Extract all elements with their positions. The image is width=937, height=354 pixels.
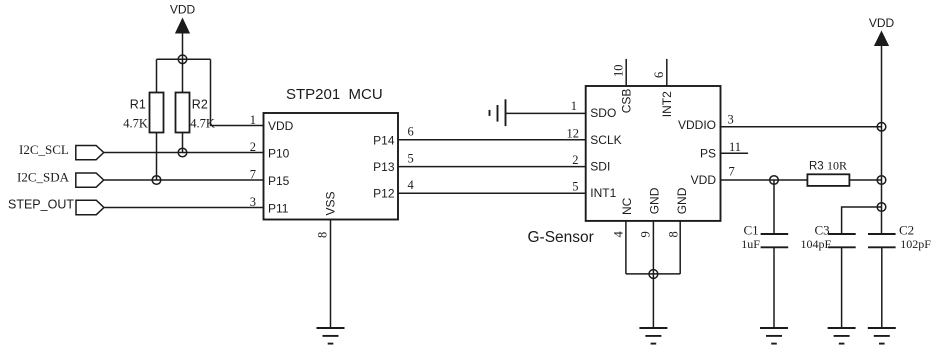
svg-text:8: 8	[316, 232, 330, 238]
svg-text:P14: P14	[373, 134, 395, 148]
svg-text:R3: R3	[809, 161, 824, 173]
wire R1 top lead	[156, 59, 158, 92]
MCU U1 STP201	[264, 86, 399, 220]
wire pin6 stub (INT2)	[666, 59, 668, 86]
wire pin10 stub (CSB)	[625, 59, 627, 86]
svg-text:NC: NC	[620, 197, 634, 215]
junction R2 / SCL	[178, 148, 187, 157]
wire pin4 down	[625, 221, 627, 274]
svg-text:9: 9	[638, 231, 652, 237]
wire C3 bottom lead	[841, 247, 843, 327]
svg-text:VDDIO: VDDIO	[678, 118, 716, 132]
svg-text:GND: GND	[648, 187, 662, 214]
svg-text:SDO: SDO	[590, 106, 616, 120]
svg-text:5: 5	[408, 151, 414, 165]
wire VDD to pin1	[211, 59, 264, 125]
wire gnd join	[626, 273, 680, 275]
svg-text:6: 6	[652, 72, 666, 78]
svg-text:1: 1	[571, 99, 577, 113]
svg-text:1: 1	[250, 113, 256, 127]
svg-text:I2C_SCL: I2C_SCL	[19, 142, 69, 157]
svg-text:VSS: VSS	[324, 191, 338, 215]
svg-text:INT1: INT1	[590, 186, 616, 200]
svg-text:102pF: 102pF	[900, 237, 931, 251]
wire top bus	[157, 58, 211, 60]
svg-text:P11: P11	[268, 202, 289, 216]
resistor R1	[123, 93, 163, 133]
svg-text:10: 10	[612, 65, 626, 78]
svg-text:7: 7	[729, 164, 735, 178]
svg-text:4: 4	[612, 231, 626, 238]
junction R1 / SDA	[152, 176, 161, 185]
ground (SDO stub, rotated)	[490, 99, 506, 126]
svg-text:P12: P12	[373, 187, 395, 201]
svg-text:G-Sensor: G-Sensor	[528, 229, 594, 246]
ground (sensor)	[639, 328, 667, 344]
svg-text:3: 3	[250, 195, 256, 209]
svg-text:2: 2	[572, 153, 578, 167]
svg-text:8: 8	[666, 231, 680, 237]
svg-text:4: 4	[408, 178, 415, 192]
capacitor C3	[801, 222, 856, 251]
junction gnd join	[649, 270, 658, 279]
wire SDO stub	[506, 112, 586, 114]
power VDD (right)	[869, 16, 895, 46]
svg-text:R2: R2	[192, 98, 208, 112]
wire C3 branch	[842, 207, 882, 234]
svg-text:VDD: VDD	[691, 173, 717, 187]
wire P14 to SCLK	[398, 139, 586, 141]
wire P12 to INT1	[398, 192, 586, 194]
svg-text:C1: C1	[744, 222, 759, 237]
junction R3 / rail	[877, 176, 886, 185]
svg-text:2: 2	[250, 140, 256, 154]
wire pin9 down	[652, 221, 654, 328]
wire pin8 down	[679, 221, 681, 274]
svg-text:6: 6	[408, 125, 414, 139]
junction VDDIO / rail	[877, 123, 886, 132]
svg-text:R1: R1	[130, 98, 146, 112]
svg-text:INT2: INT2	[660, 91, 674, 117]
svg-text:12: 12	[567, 126, 580, 140]
junction C1 tap	[770, 176, 779, 185]
svg-text:P10: P10	[268, 147, 290, 161]
svg-text:CSB: CSB	[620, 89, 634, 114]
svg-text:VDD: VDD	[869, 16, 895, 30]
svg-text:VDD: VDD	[170, 3, 196, 17]
svg-text:C3: C3	[815, 222, 830, 237]
wire R3 to VDD rail	[849, 179, 881, 181]
port STEP_OUT	[8, 198, 104, 215]
G-Sensor U2	[528, 86, 721, 246]
svg-text:1uF: 1uF	[741, 237, 760, 251]
svg-text:SDI: SDI	[590, 159, 610, 173]
svg-text:GND: GND	[675, 187, 689, 214]
junction VDD bus	[178, 55, 187, 64]
svg-text:SCLK: SCLK	[590, 133, 621, 147]
wire VSS to ground	[330, 220, 332, 328]
wire SDA	[104, 179, 264, 181]
port I2C_SCL	[19, 142, 104, 160]
capacitor C1	[741, 222, 788, 251]
wire C1 bottom lead	[773, 247, 775, 327]
power VDD (left)	[170, 3, 196, 60]
wire PS stub	[721, 152, 749, 154]
wire VDD rail	[881, 46, 883, 234]
svg-text:4.7K: 4.7K	[123, 116, 148, 130]
port I2C_SDA	[17, 170, 104, 188]
svg-text:11: 11	[729, 140, 741, 154]
svg-text:10R: 10R	[827, 159, 847, 173]
wire C2 bottom lead	[881, 247, 883, 327]
ground (C2)	[868, 328, 896, 344]
svg-text:P15: P15	[268, 174, 290, 188]
wire P13 to SDI	[398, 166, 586, 168]
capacitor C2	[868, 222, 931, 251]
resistor R2	[176, 93, 215, 133]
ground (C3)	[828, 328, 856, 344]
svg-text:4.7K: 4.7K	[190, 116, 215, 130]
svg-text:C2: C2	[899, 222, 914, 237]
svg-text:104pF: 104pF	[801, 237, 832, 251]
svg-text:STP201 MCU: STP201 MCU	[286, 86, 383, 103]
wire VDD pin to R3	[721, 179, 808, 181]
wire VDDIO to VDD rail	[721, 126, 882, 128]
svg-text:3: 3	[728, 112, 734, 126]
wire C1 top lead	[773, 180, 775, 234]
svg-text:STEP_OUT: STEP_OUT	[8, 198, 74, 212]
svg-text:5: 5	[572, 180, 578, 194]
svg-text:7: 7	[250, 168, 256, 182]
svg-text:P13: P13	[373, 160, 395, 174]
wire SCL	[104, 152, 264, 154]
svg-text:VDD: VDD	[268, 119, 294, 133]
wire R2 bottom lead	[182, 133, 184, 153]
svg-text:PS: PS	[700, 147, 716, 161]
svg-text:I2C_SDA: I2C_SDA	[17, 170, 70, 185]
wire R2 top lead	[182, 59, 184, 92]
ground (MCU VSS)	[317, 328, 345, 344]
ground (C1)	[760, 328, 788, 344]
wire STEP_OUT	[104, 207, 264, 209]
junction C3 tap	[877, 203, 886, 212]
resistor R3	[807, 159, 849, 186]
wire R1 bottom lead	[156, 133, 158, 181]
